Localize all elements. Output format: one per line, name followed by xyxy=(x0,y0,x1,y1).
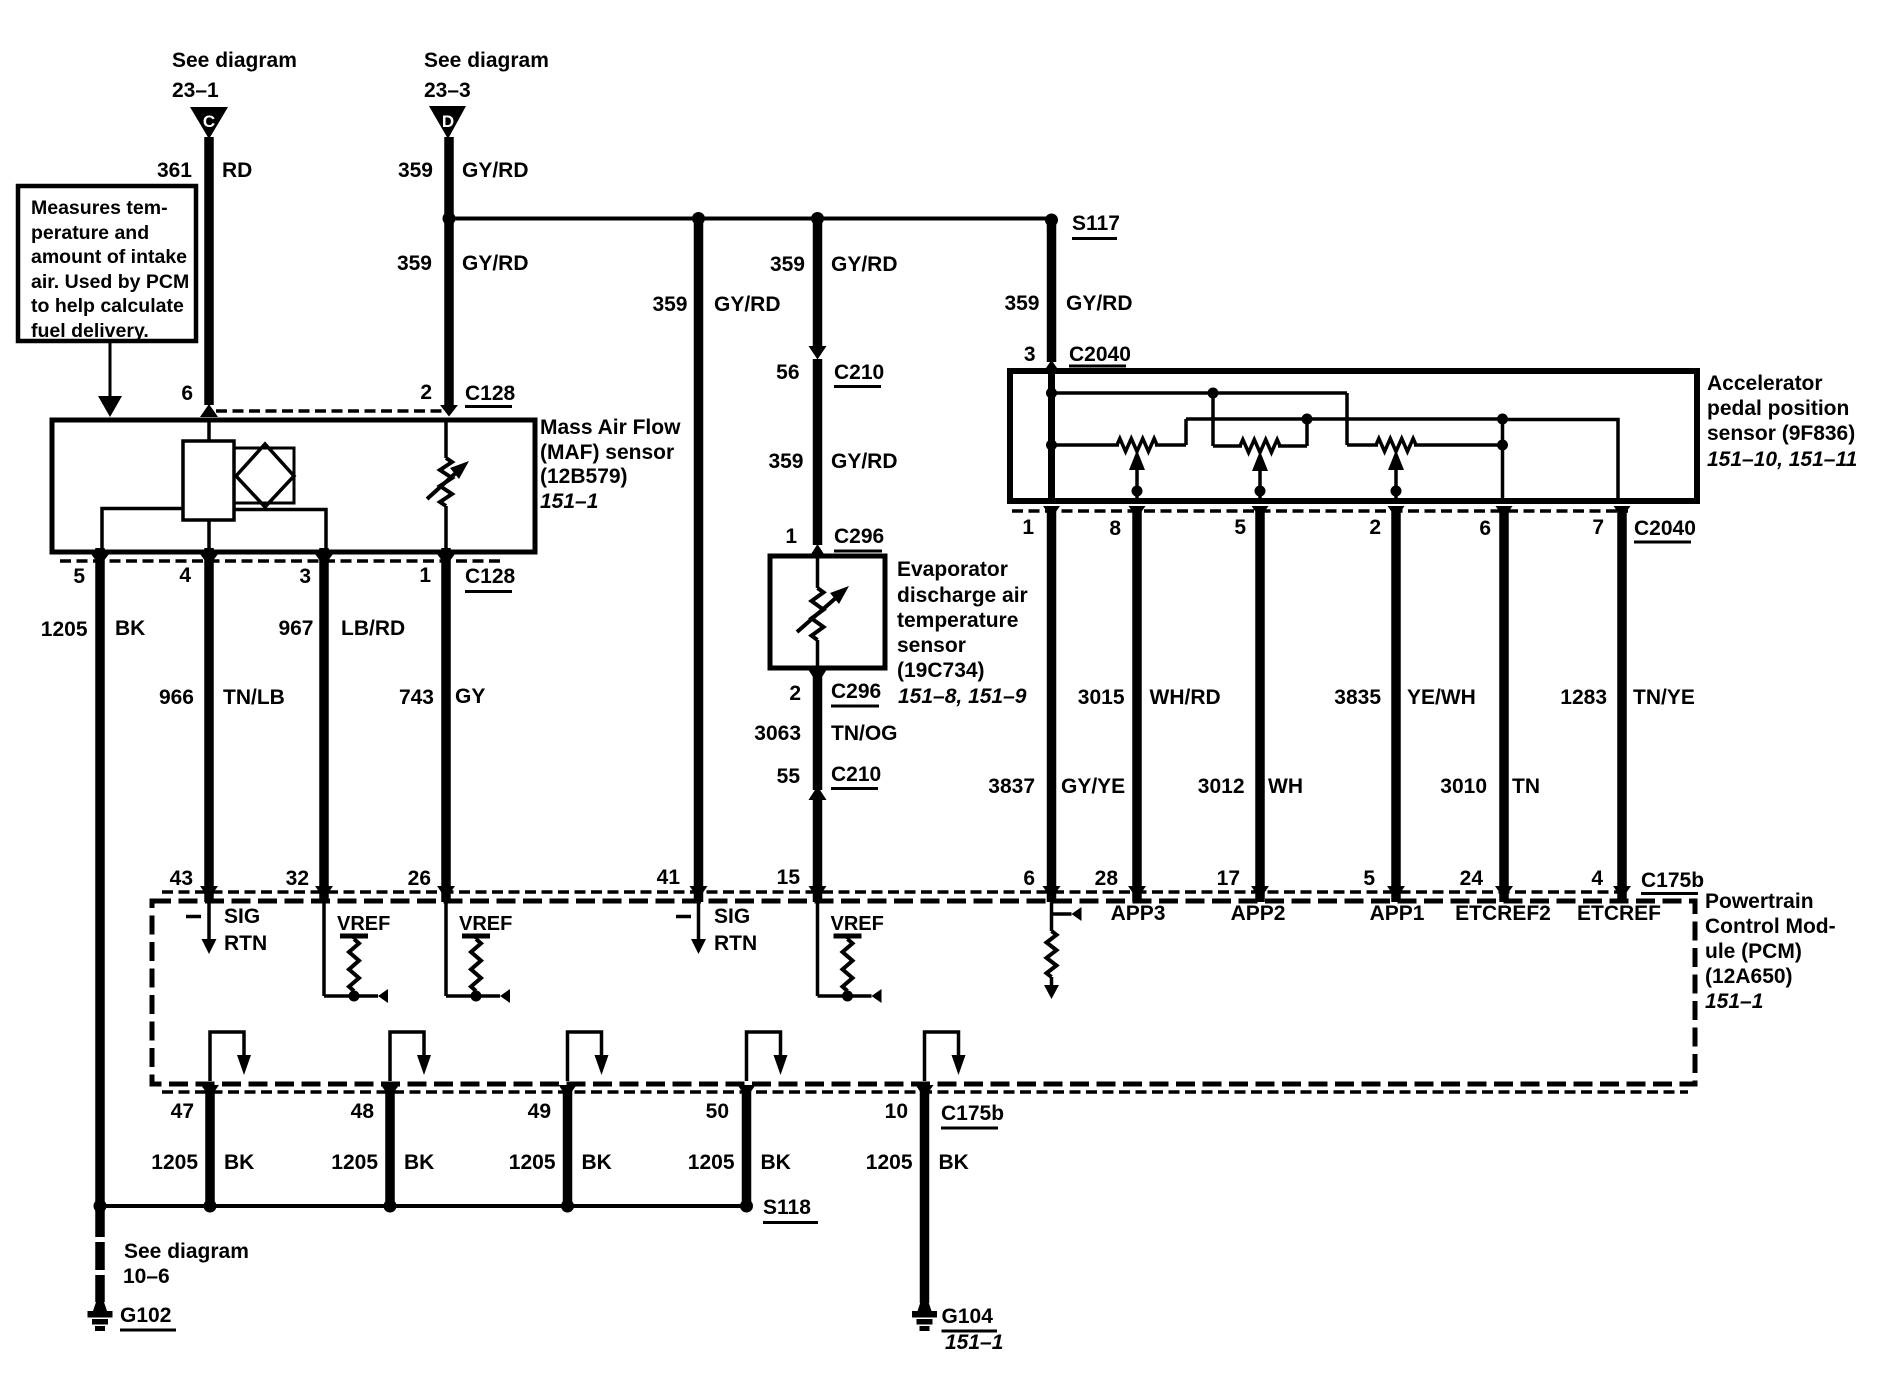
svg-text:(19C734): (19C734) xyxy=(897,659,985,682)
APP potentiometer 1 (track) xyxy=(1052,443,1120,447)
svg-text:(12A650): (12A650) xyxy=(1705,965,1793,988)
svg-text:sensor: sensor xyxy=(897,634,966,657)
svg-text:S117: S117 xyxy=(1072,212,1120,235)
connector C2040 bottom dashed interface line xyxy=(1012,509,1628,513)
svg-text:ETCREF2: ETCREF2 xyxy=(1455,902,1551,925)
svg-text:26: 26 xyxy=(408,867,431,890)
wire 359 GY/RD from C210 to evaporator sensor C296 pin 1 xyxy=(813,359,823,545)
node: S118 junction pin 49 wire xyxy=(561,1200,574,1213)
wire 1205 BK from MAF pin 5 down to splice S118 xyxy=(95,548,105,1206)
PCM pin 49 internal ground link xyxy=(568,1032,602,1081)
svg-text:1205: 1205 xyxy=(688,1151,735,1174)
wire 359 GY/RD from connector D down to MAF pin 2 xyxy=(444,137,454,407)
svg-text:8: 8 xyxy=(1109,517,1121,540)
svg-text:3837: 3837 xyxy=(988,775,1035,798)
node: S118 junction MAF pin 5 wire xyxy=(94,1200,107,1213)
svg-text:C128: C128 xyxy=(465,565,516,588)
wire 361 RD from connector C down to MAF pin 6 xyxy=(204,137,214,405)
svg-text:359: 359 xyxy=(768,450,803,473)
svg-text:743: 743 xyxy=(399,686,434,709)
svg-text:VREF: VREF xyxy=(459,913,512,935)
svg-text:4: 4 xyxy=(179,564,191,587)
svg-text:1205: 1205 xyxy=(866,1151,913,1174)
wire 359 GY/RD from splice S117 down to PCM pin 41 xyxy=(694,218,704,902)
APP internal wire rail A down to pot3 left lead xyxy=(1345,393,1349,445)
PCM pin 41 SIG RTN internal symbol xyxy=(697,902,701,940)
APP internal wire pot1 right lead up to rail B xyxy=(1184,419,1188,445)
APP internal wire rail A down to pot2 left lead xyxy=(1211,393,1215,446)
node: APP junction pot1 lead on pin3 wire xyxy=(1046,440,1057,451)
Evaporator discharge air temperature sensor box xyxy=(770,556,885,668)
svg-text:7: 7 xyxy=(1592,516,1604,539)
connector C210 pin 55 arrow (pointing up) xyxy=(809,786,827,800)
svg-text:359: 359 xyxy=(398,159,433,182)
svg-text:C296: C296 xyxy=(831,680,881,703)
svg-text:BK: BK xyxy=(761,1151,791,1174)
PCM pin 50 internal ground link xyxy=(747,1032,781,1081)
svg-text:3: 3 xyxy=(299,565,311,588)
svg-text:10–6: 10–6 xyxy=(123,1265,170,1288)
svg-text:3063: 3063 xyxy=(754,722,801,745)
svg-text:5: 5 xyxy=(1363,867,1375,890)
svg-text:15: 15 xyxy=(777,866,801,889)
MAF internal sensing element rectangle xyxy=(183,441,234,520)
svg-text:3835: 3835 xyxy=(1334,686,1381,709)
wire 3063 TN/OG from C296 pin 2 to C210 pin 55 xyxy=(813,670,823,790)
arrow from note box to MAF sensor box xyxy=(109,341,112,398)
APP internal rail A xyxy=(1052,391,1348,395)
svg-text:GY/RD: GY/RD xyxy=(462,252,529,275)
svg-text:1: 1 xyxy=(1022,516,1034,539)
wire: element bottom to MAF pin 4 xyxy=(207,520,211,550)
svg-text:YE/WH: YE/WH xyxy=(1407,686,1476,709)
svg-text:3: 3 xyxy=(1024,343,1036,366)
svg-text:10: 10 xyxy=(885,1100,908,1123)
svg-text:C2040: C2040 xyxy=(1634,517,1696,540)
svg-text:BK: BK xyxy=(582,1151,612,1174)
svg-text:RTN: RTN xyxy=(224,932,267,955)
svg-text:359: 359 xyxy=(397,252,432,275)
PCM pin 43 SIG RTN internal symbol xyxy=(207,902,211,940)
svg-text:(12B579): (12B579) xyxy=(540,465,628,488)
node: APP junction rail A on pin3 wire xyxy=(1046,388,1057,399)
svg-text:2: 2 xyxy=(1369,516,1381,539)
PCM pin 6 internal reference resistor xyxy=(1050,902,1054,931)
PCM pin 26 VREF internal pull-up resistor xyxy=(444,902,448,996)
PCM pin 32 VREF internal pull-up resistor xyxy=(322,902,326,996)
node: S118 junction pin 48 wire xyxy=(384,1200,397,1213)
svg-text:359: 359 xyxy=(770,253,805,276)
svg-text:23–3: 23–3 xyxy=(424,79,471,102)
node: APP rail A junction to pot2 xyxy=(1208,388,1219,399)
Mass Air Flow (MAF) sensor box xyxy=(52,420,535,552)
APP internal wire rail B extension to pin 7 xyxy=(1503,420,1619,502)
svg-text:151–1: 151–1 xyxy=(1705,990,1763,1013)
svg-text:1205: 1205 xyxy=(331,1151,378,1174)
ground G104 symbol xyxy=(913,1302,937,1331)
svg-text:BK: BK xyxy=(115,617,145,640)
connector arrows C128 pins 5 4 3 1 (pointing down) xyxy=(91,554,109,566)
svg-text:to help calculate: to help calculate xyxy=(31,295,184,317)
wire 3010 TN from C2040 pin 6 to PCM pin 24 xyxy=(1499,506,1509,902)
wire 3837 GY/YE from C2040 pin 1 to PCM pin 6 xyxy=(1047,506,1057,902)
svg-text:RD: RD xyxy=(222,159,252,182)
wire 967 LB/RD from MAF pin 3 down to PCM pin 32 xyxy=(319,548,329,902)
svg-text:See diagram: See diagram xyxy=(424,49,549,72)
svg-text:APP3: APP3 xyxy=(1111,902,1166,925)
svg-text:G104: G104 xyxy=(942,1305,994,1328)
svg-text:151–1: 151–1 xyxy=(945,1331,1003,1354)
svg-text:1: 1 xyxy=(419,564,431,587)
APP internal wire junction to pin 6 xyxy=(1501,419,1505,501)
svg-text:fuel delivery.: fuel delivery. xyxy=(31,320,149,342)
wire 1205 BK from PCM pin 50 to splice S118 xyxy=(742,1086,752,1206)
ground G102 symbol xyxy=(88,1302,112,1331)
svg-text:See diagram: See diagram xyxy=(172,49,297,72)
svg-text:1283: 1283 xyxy=(1560,686,1607,709)
svg-text:151–10, 151–11: 151–10, 151–11 xyxy=(1707,448,1857,471)
svg-text:C210: C210 xyxy=(834,361,884,384)
wire 1205 BK from PCM pin 49 to splice S118 xyxy=(563,1086,573,1206)
svg-text:sensor (9F836): sensor (9F836) xyxy=(1707,422,1855,445)
connector C175b bottom dashed interface line xyxy=(162,1090,1688,1094)
PCM pin 15 VREF internal pull-up resistor xyxy=(816,902,820,996)
svg-text:2: 2 xyxy=(789,682,801,705)
connector triangle C (to diagram 23-1) xyxy=(190,107,228,139)
svg-text:1205: 1205 xyxy=(509,1151,556,1174)
APP internal wire pin3 to pin1 xyxy=(1048,373,1055,501)
svg-text:SIG: SIG xyxy=(224,905,260,928)
svg-text:C128: C128 xyxy=(465,382,516,405)
svg-text:GY/RD: GY/RD xyxy=(714,293,781,316)
svg-text:discharge air: discharge air xyxy=(897,584,1028,607)
svg-text:966: 966 xyxy=(159,686,194,709)
splice S118 horizontal wire xyxy=(100,1204,747,1208)
APP pot1 wiper arrow to pin 8 xyxy=(1129,450,1145,470)
connector C175b top dashed interface line xyxy=(162,890,1630,894)
APP internal wire rail B down to pot2 right lead xyxy=(1305,419,1309,446)
connector arrows C2040 pins 1 8 5 2 6 7 (pointing down) xyxy=(1043,506,1060,518)
wire 1205 BK from PCM pin 47 to splice S118 xyxy=(205,1086,215,1206)
APP internal rail B xyxy=(1186,417,1503,421)
connector arrows C175b top pins (pointing down) xyxy=(200,886,218,899)
svg-text:G102: G102 xyxy=(120,1304,171,1327)
svg-text:LB/RD: LB/RD xyxy=(341,617,405,640)
wire 966 TN/LB from MAF pin 4 down to PCM pin 43 xyxy=(204,548,214,902)
svg-text:48: 48 xyxy=(351,1100,375,1123)
Powertrain Control Module (PCM) dashed box xyxy=(152,901,1695,1084)
node: APP rail B junction to pot2 right lead xyxy=(1302,414,1313,425)
wire 1205 BK from PCM pin 48 to splice S118 xyxy=(385,1086,395,1206)
svg-text:5: 5 xyxy=(1234,516,1246,539)
wire 1205 BK from PCM pin 10 to ground G104 xyxy=(920,1086,930,1303)
svg-text:49: 49 xyxy=(528,1100,551,1123)
PCM pin 47 internal ground link xyxy=(210,1032,244,1081)
svg-text:Mass Air Flow: Mass Air Flow xyxy=(540,416,681,439)
connector arrows C175b bottom pins 47 48 49 50 10 (pointing down) xyxy=(201,1085,219,1098)
svg-text:S118: S118 xyxy=(763,1196,811,1219)
node: splice S117 end junction xyxy=(1045,214,1058,227)
svg-text:43: 43 xyxy=(170,867,193,890)
svg-text:ule (PCM): ule (PCM) xyxy=(1705,940,1802,963)
svg-text:1205: 1205 xyxy=(41,618,88,641)
svg-text:5: 5 xyxy=(73,565,85,588)
svg-text:GY/RD: GY/RD xyxy=(831,253,898,276)
svg-text:TN/OG: TN/OG xyxy=(831,722,898,745)
svg-text:air. Used by PCM: air. Used by PCM xyxy=(31,271,189,293)
svg-text:APP2: APP2 xyxy=(1231,902,1286,925)
svg-text:Evaporator: Evaporator xyxy=(897,558,1008,581)
svg-text:D: D xyxy=(442,112,454,131)
connector triangle D (to diagram 23-3) xyxy=(429,106,466,139)
svg-text:GY/RD: GY/RD xyxy=(831,450,898,473)
svg-text:(MAF) sensor: (MAF) sensor xyxy=(540,441,674,464)
svg-text:RTN: RTN xyxy=(714,932,757,955)
evaporator thermistor symbol xyxy=(816,558,820,588)
svg-text:BK: BK xyxy=(404,1151,434,1174)
svg-text:C2040: C2040 xyxy=(1069,343,1131,366)
svg-text:WH/RD: WH/RD xyxy=(1150,686,1221,709)
svg-text:C296: C296 xyxy=(834,525,884,548)
node: S118 junction pin 47 wire xyxy=(204,1200,217,1213)
svg-text:3015: 3015 xyxy=(1078,686,1125,709)
wire from C210 pin 55 down to PCM pin 15 xyxy=(813,798,823,902)
svg-text:24: 24 xyxy=(1460,867,1484,890)
APP potentiometer 2 (track) xyxy=(1213,444,1242,448)
svg-text:967: 967 xyxy=(278,617,313,640)
wire 1283 TN/YE from C2040 pin 7 to PCM pin 4 xyxy=(1617,506,1627,902)
wire 359 GY/RD from S117 down to C2040 pin 3 xyxy=(1047,218,1057,362)
svg-text:56: 56 xyxy=(776,361,799,384)
svg-text:GY/RD: GY/RD xyxy=(462,159,529,182)
svg-text:361: 361 xyxy=(157,159,192,182)
svg-text:BK: BK xyxy=(939,1151,969,1174)
wire: MAF pin 6 to element xyxy=(207,422,211,441)
svg-text:SIG: SIG xyxy=(714,905,750,928)
svg-text:BK: BK xyxy=(224,1151,254,1174)
wire 3835 YE/WH from C2040 pin 2 to PCM pin 5 xyxy=(1391,506,1401,902)
node: splice junction on D wire xyxy=(443,212,456,225)
svg-text:2: 2 xyxy=(420,381,432,404)
svg-text:pedal position: pedal position xyxy=(1707,397,1849,420)
Accelerator pedal position sensor box xyxy=(1010,371,1697,501)
MAF internal hot-wire bridge diamond xyxy=(234,448,294,503)
connector C296 pin 2 arrow (pointing down) xyxy=(809,670,827,684)
svg-text:3012: 3012 xyxy=(1198,775,1245,798)
svg-text:4: 4 xyxy=(1591,867,1603,890)
svg-text:151–1: 151–1 xyxy=(540,490,598,513)
svg-text:perature and: perature and xyxy=(31,222,149,244)
node: S118 junction pin 50 wire xyxy=(740,1200,753,1213)
connector C128 bottom dashed interface line xyxy=(60,559,500,563)
description note box for MAF sensor xyxy=(18,186,196,341)
svg-text:47: 47 xyxy=(171,1100,194,1123)
svg-text:C: C xyxy=(203,112,215,131)
svg-text:17: 17 xyxy=(1217,867,1240,890)
svg-text:359: 359 xyxy=(652,293,687,316)
svg-text:151–8, 151–9: 151–8, 151–9 xyxy=(898,685,1027,708)
connector arrow C128 pin 6 (pointing up) xyxy=(200,404,218,417)
PCM pin 10 internal ground link xyxy=(925,1032,959,1081)
APP potentiometer 3 (track) xyxy=(1347,443,1378,447)
wire 3012 WH from C2040 pin 5 to PCM pin 17 xyxy=(1255,506,1265,902)
MAF variable resistor (sensing resistor) with arrow xyxy=(444,422,448,458)
svg-text:VREF: VREF xyxy=(337,913,390,935)
PCM pin 48 internal ground link xyxy=(390,1032,424,1081)
svg-text:GY: GY xyxy=(455,685,485,708)
svg-text:GY/YE: GY/YE xyxy=(1061,775,1125,798)
svg-text:APP1: APP1 xyxy=(1370,902,1425,925)
APP pot2 wiper arrow to pin 5 xyxy=(1252,451,1268,471)
wire: MAF pin 5 up and right to element xyxy=(102,509,183,551)
wire 743 GY from MAF pin 1 down to PCM pin 26 xyxy=(441,548,451,902)
svg-text:Measures tem-: Measures tem- xyxy=(31,197,168,219)
svg-text:6: 6 xyxy=(181,382,193,405)
svg-text:amount of intake: amount of intake xyxy=(31,246,187,268)
svg-text:TN: TN xyxy=(1512,775,1540,798)
wire (dashed continuation) to ground G102 xyxy=(95,1209,105,1302)
splice S117 horizontal wire xyxy=(449,217,1052,221)
svg-text:6: 6 xyxy=(1479,517,1491,540)
connector C2040 pin 3 arrow (pointing up) xyxy=(1043,360,1061,373)
node: APP junction pot3 right lead on pin6 wire xyxy=(1497,440,1508,451)
svg-text:ETCREF: ETCREF xyxy=(1577,902,1661,925)
svg-text:TN/YE: TN/YE xyxy=(1633,686,1695,709)
node: junction S117 to C210 wire xyxy=(811,212,824,225)
svg-text:55: 55 xyxy=(777,765,801,788)
svg-text:23–1: 23–1 xyxy=(172,79,219,102)
svg-text:TN/LB: TN/LB xyxy=(223,686,285,709)
svg-text:1: 1 xyxy=(785,525,797,548)
svg-text:WH: WH xyxy=(1268,775,1303,798)
svg-text:GY/RD: GY/RD xyxy=(1066,292,1133,315)
wire 3015 WH/RD from C2040 pin 8 to PCM pin 28 xyxy=(1132,506,1142,902)
svg-text:Control Mod-: Control Mod- xyxy=(1705,915,1836,938)
svg-text:41: 41 xyxy=(657,866,681,889)
svg-text:28: 28 xyxy=(1095,867,1119,890)
connector C296 pin 1 arrow (pointing up) xyxy=(809,544,827,558)
APP pot3 wiper arrow to pin 2 xyxy=(1388,450,1404,470)
svg-text:C175b: C175b xyxy=(941,1102,1004,1125)
svg-text:temperature: temperature xyxy=(897,609,1018,632)
svg-text:3010: 3010 xyxy=(1440,775,1487,798)
wire 359 GY/RD from S117 to connector C210 pin 56 xyxy=(813,218,823,348)
svg-text:6: 6 xyxy=(1023,867,1035,890)
svg-text:Powertrain: Powertrain xyxy=(1705,890,1814,913)
svg-text:359: 359 xyxy=(1004,292,1039,315)
svg-text:See diagram: See diagram xyxy=(124,1240,249,1263)
svg-text:50: 50 xyxy=(706,1100,729,1123)
connector C128 top dashed interface line xyxy=(216,409,444,413)
svg-text:32: 32 xyxy=(286,867,309,890)
wire: element right to MAF pin 3 xyxy=(234,510,326,551)
node: junction S117 to wire 41 xyxy=(692,212,705,225)
svg-text:1205: 1205 xyxy=(151,1151,198,1174)
svg-text:VREF: VREF xyxy=(831,913,884,935)
connector C210 pin 56 arrow (pointing down) xyxy=(809,346,827,360)
connector arrow C128 pin 2 (pointing down) xyxy=(440,405,458,417)
node: APP junction rail B on pin6 wire xyxy=(1497,414,1508,425)
svg-text:Accelerator: Accelerator xyxy=(1707,372,1823,395)
svg-text:C210: C210 xyxy=(831,763,881,786)
svg-text:C175b: C175b xyxy=(1641,869,1704,892)
